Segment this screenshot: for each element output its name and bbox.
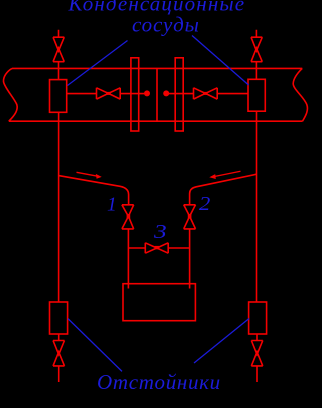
svg-text:3: 3: [153, 220, 167, 242]
svg-text:Отстойники: Отстойники: [97, 370, 221, 394]
svg-text:сосуды: сосуды: [132, 13, 200, 37]
svg-text:2: 2: [199, 193, 210, 215]
svg-text:1: 1: [107, 195, 117, 216]
